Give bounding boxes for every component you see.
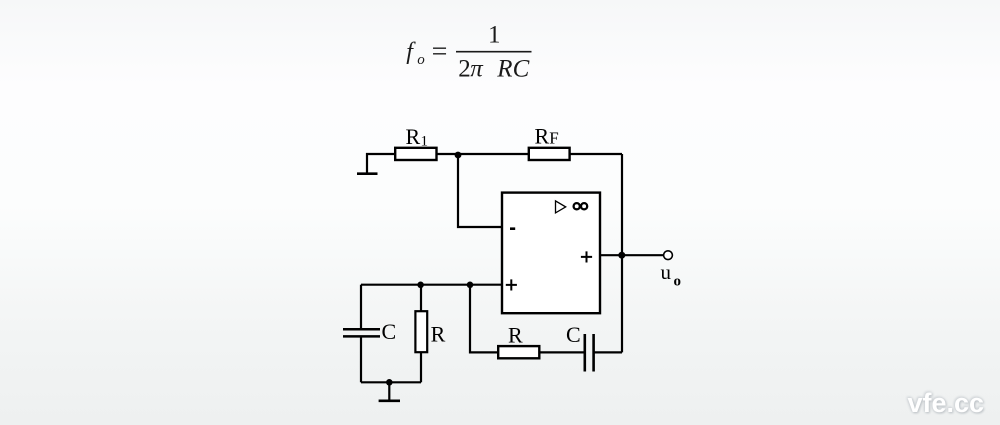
op-amp minus input sign bbox=[510, 227, 515, 230]
svg-text:C: C bbox=[566, 322, 581, 347]
node E output junction dot bbox=[618, 252, 625, 259]
resistor R (series) bbox=[498, 346, 539, 358]
wire node B down to series RC row bbox=[470, 285, 498, 353]
svg-text:2: 2 bbox=[458, 55, 471, 82]
wire resistor R top lead bbox=[420, 285, 422, 312]
ground G1 bar bbox=[357, 172, 378, 175]
resistor R (vertical) bbox=[415, 311, 427, 352]
wire resistor R bottom lead bbox=[420, 352, 422, 382]
svg-text:R: R bbox=[431, 322, 446, 347]
svg-text:o: o bbox=[674, 273, 682, 289]
wire left branch down to capacitor C bbox=[360, 285, 362, 330]
capacitor C2 (series, vertical plates) bbox=[585, 334, 594, 372]
wire capacitor C to bottom-left row bbox=[360, 336, 362, 382]
node B junction dot (420) bbox=[417, 282, 424, 289]
svg-text:F: F bbox=[549, 128, 558, 147]
wire inverting input from node A bbox=[458, 154, 502, 227]
node C junction dot (470) bbox=[467, 282, 474, 289]
formula f_o = 1/(2 pi RC) bbox=[406, 22, 531, 83]
wire RF corner down to output node bbox=[621, 154, 623, 352]
svg-text:1: 1 bbox=[488, 22, 501, 49]
svg-text:R: R bbox=[535, 123, 550, 148]
wire non-inverting input row bbox=[361, 284, 502, 286]
wire bottom-left row bbox=[361, 381, 421, 383]
svg-text:1: 1 bbox=[421, 134, 429, 150]
output terminal circle bbox=[664, 251, 673, 260]
watermark vfe.cc bbox=[907, 388, 984, 419]
op-amp triangle symbol bbox=[556, 201, 566, 213]
wire top horizontal R1/RF row bbox=[366, 153, 622, 155]
op-amp output plus sign bbox=[581, 251, 592, 262]
resistor R1 bbox=[395, 148, 436, 160]
svg-text:f: f bbox=[406, 39, 416, 65]
node D junction dot (bottom-left) bbox=[386, 379, 393, 386]
capacitor C (left, horizontal plates) bbox=[343, 329, 380, 336]
wire capacitor C2 to right vertical bbox=[594, 351, 622, 353]
svg-text:R: R bbox=[406, 124, 421, 149]
op-amp U1 body bbox=[502, 193, 600, 314]
svg-text:o: o bbox=[417, 52, 425, 68]
svg-text:R: R bbox=[508, 322, 523, 347]
node A junction dot bbox=[455, 152, 462, 159]
op-amp plus input sign bbox=[506, 279, 517, 290]
resistor RF bbox=[529, 148, 570, 160]
svg-text:π: π bbox=[470, 55, 484, 82]
svg-text:C: C bbox=[382, 319, 397, 344]
op-amp infinity symbol bbox=[574, 203, 588, 209]
svg-text:RC: RC bbox=[496, 55, 529, 82]
ground G2 bar bbox=[379, 399, 400, 402]
wire op-amp output bbox=[600, 254, 663, 256]
svg-text:u: u bbox=[661, 260, 672, 284]
ground G2 stem bbox=[388, 382, 390, 401]
ground G1 stem bbox=[366, 153, 368, 174]
svg-text:=: = bbox=[432, 37, 448, 68]
wire series R to capacitor C2 bbox=[539, 351, 584, 353]
